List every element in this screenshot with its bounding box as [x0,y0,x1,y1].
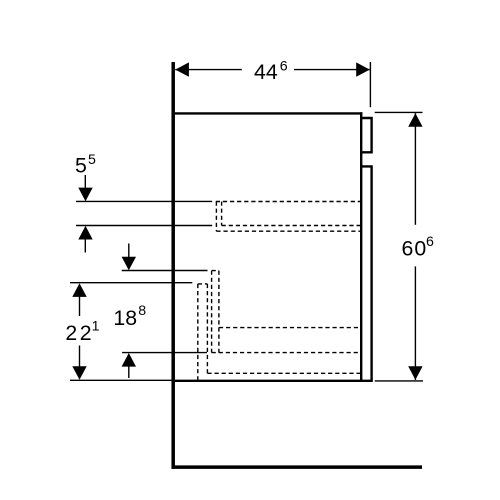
svg-text:18: 18 [113,306,137,330]
svg-text:2: 2 [65,321,77,345]
svg-text:6: 6 [426,234,434,250]
svg-text:0: 0 [414,236,426,260]
svg-text:2: 2 [80,321,92,345]
svg-text:6: 6 [402,236,414,260]
svg-text:6: 6 [280,59,288,75]
svg-text:5: 5 [88,152,96,168]
svg-text:44: 44 [254,60,278,84]
svg-text:1: 1 [92,319,100,335]
svg-text:5: 5 [75,154,87,178]
svg-text:8: 8 [138,303,146,319]
